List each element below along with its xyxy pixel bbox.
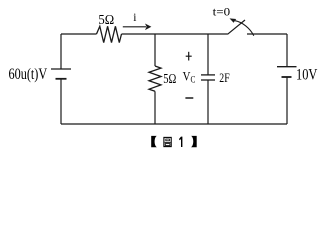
wire top-left segment — [61, 33, 97, 35]
svg-text:C: C — [191, 75, 196, 85]
switch t=0 blade — [228, 20, 246, 34]
wire right side lower — [286, 77, 288, 124]
switch arc arrowhead — [230, 18, 237, 22]
wire top-right segment — [247, 33, 287, 35]
wire capacitor branch upper — [207, 34, 209, 75]
polarity plus sign — [186, 52, 192, 61]
svg-text:5Ω: 5Ω — [163, 71, 176, 86]
battery 10V — [277, 67, 297, 77]
wire shunt branch upper — [154, 34, 156, 66]
switch motion arc — [235, 21, 254, 36]
svg-text:60u(t)V: 60u(t)V — [9, 66, 48, 83]
wire left side upper — [60, 34, 62, 69]
wire left side lower — [60, 79, 62, 124]
voltage source 60u(t)V — [51, 69, 71, 79]
caption glyph 圖 — [164, 137, 171, 146]
capacitor 2F — [201, 75, 215, 80]
svg-text:t=0: t=0 — [213, 6, 231, 19]
caption text 1 — [179, 137, 182, 147]
polarity minus sign — [185, 97, 193, 99]
wire shunt branch lower — [154, 91, 156, 124]
svg-text:2F: 2F — [219, 71, 229, 85]
wire right side upper — [286, 34, 288, 67]
svg-text:10V: 10V — [296, 67, 318, 84]
wire bottom — [61, 123, 287, 125]
caption bracket left 【 — [151, 136, 157, 147]
label Vc — [183, 70, 196, 85]
svg-text:i: i — [133, 12, 136, 24]
wire top-middle segment — [122, 33, 228, 35]
resistor 5Ω series (zigzag) — [97, 26, 122, 42]
wire capacitor branch lower — [207, 80, 209, 124]
caption bracket right 】 — [191, 136, 197, 147]
current arrow i — [123, 24, 152, 31]
resistor 5Ω shunt (zigzag) — [149, 66, 161, 91]
svg-text:5Ω: 5Ω — [98, 13, 114, 28]
